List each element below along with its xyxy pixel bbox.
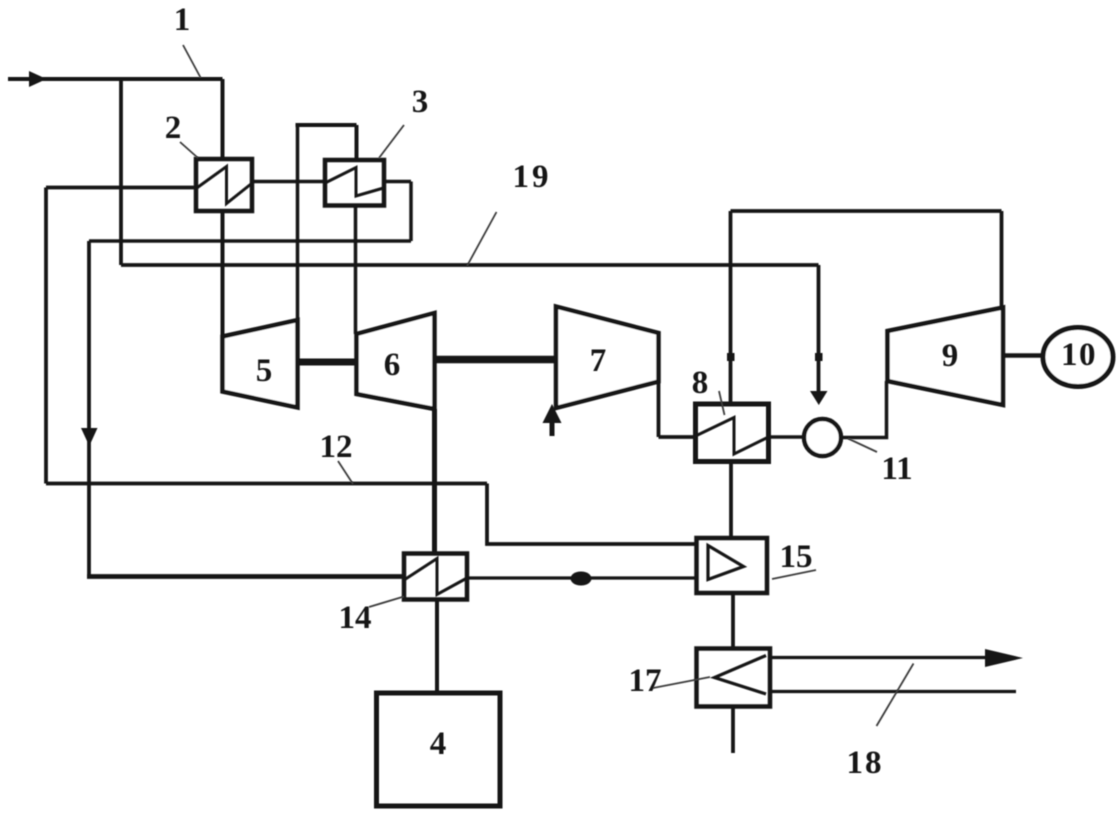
zigzag of heat exchanger 8 bbox=[696, 418, 769, 455]
svg-text:9: 9 bbox=[942, 338, 959, 374]
wire: left downcomer to exchanger 14 bbox=[87, 241, 91, 577]
mixer 11 bbox=[804, 419, 841, 456]
leader 15 bbox=[772, 570, 816, 579]
wire: vertical from inlet to line 19 bbox=[119, 79, 123, 265]
leader 2 bbox=[180, 142, 198, 158]
shaft turbine 6 to compressor 7 bbox=[435, 356, 557, 364]
svg-text:12: 12 bbox=[320, 429, 353, 465]
flow tick on riser bbox=[727, 353, 735, 361]
wire: exchanger 2 to exchanger 3 bbox=[252, 180, 325, 184]
svg-text:2: 2 bbox=[165, 110, 182, 146]
svg-text:5: 5 bbox=[256, 353, 273, 389]
wire: burner 15 down to cooler 17 bbox=[731, 593, 735, 649]
wire: turbine 9 exhaust riser to exchanger 8 bbox=[729, 211, 733, 404]
wire: reheat loop top bbox=[296, 123, 357, 127]
svg-text:6: 6 bbox=[384, 347, 401, 383]
flow tick on drop bbox=[815, 353, 823, 361]
leader 1 bbox=[183, 45, 201, 78]
svg-text:4: 4 bbox=[430, 726, 447, 762]
triangle of cooler 17 bbox=[715, 656, 767, 695]
shaft turbine 5 to 6 bbox=[298, 359, 357, 366]
wire: top loop down to turbine 9 bbox=[1000, 211, 1004, 308]
burner 15 bbox=[697, 538, 768, 593]
turbine 6 bbox=[357, 313, 435, 409]
wire: compressor outlet to exchanger 8 bbox=[659, 435, 696, 439]
wire: cooler 17 upper outlet 18 bbox=[770, 656, 990, 659]
svg-text:15: 15 bbox=[780, 539, 813, 575]
wire: exchanger 3 right outlet bbox=[384, 180, 411, 184]
wire: inlet down into heat exchanger 2 bbox=[221, 79, 225, 159]
wire: inlet line 1 bbox=[8, 77, 223, 81]
leader 11 bbox=[848, 439, 877, 453]
svg-text:19: 19 bbox=[513, 159, 552, 195]
generator 10 bbox=[1043, 328, 1113, 387]
triangle of burner 15 bbox=[708, 546, 744, 580]
condenser box 4 bbox=[377, 693, 501, 806]
wire: exchanger 2 down to turbine 5 inlet bbox=[221, 211, 225, 337]
svg-text:7: 7 bbox=[590, 343, 607, 379]
wire: line 19 drop to mixer 11 bbox=[817, 265, 821, 394]
arrowhead outlet 18 bbox=[985, 649, 1023, 667]
wire: exchanger 3 down to turbine 6 inlet bbox=[354, 206, 358, 335]
leader 18 bbox=[877, 664, 914, 727]
svg-text:11: 11 bbox=[881, 451, 912, 487]
arrowhead on downcomer bbox=[81, 428, 98, 446]
wire: cooler 17 lower line 18 bbox=[770, 690, 1016, 693]
wire: thick feed into exchanger 14 bbox=[87, 574, 404, 579]
leader 3 bbox=[379, 125, 404, 158]
arrowhead inlet bbox=[29, 71, 47, 87]
valve oval on fuel line bbox=[571, 572, 592, 586]
wire: line 12 step down bbox=[487, 484, 697, 545]
svg-text:14: 14 bbox=[339, 600, 372, 636]
leader 19 bbox=[467, 212, 497, 266]
wire: exchanger 8 down to burner 15 bbox=[729, 462, 733, 539]
zigzag of heat exchanger 2 bbox=[196, 167, 251, 204]
leader 17 bbox=[653, 677, 710, 688]
air intake stem bbox=[550, 418, 555, 436]
wire: turbine 6 exhaust down to exchanger 14 bbox=[432, 409, 437, 554]
wire: exchanger 8 to mixer 11 bbox=[769, 435, 805, 439]
wire: left vertical to line 12 bbox=[44, 188, 48, 484]
leader 14 bbox=[369, 597, 404, 608]
wire: exchanger 14 fuel line to burner 15 bbox=[467, 576, 697, 579]
turbine 5 bbox=[223, 320, 298, 408]
svg-text:3: 3 bbox=[412, 84, 429, 120]
wire: cooler 17 drain stub bbox=[731, 707, 735, 754]
heat exchanger 8 bbox=[696, 404, 769, 462]
compressor 7 bbox=[556, 307, 659, 409]
zigzag of heat exchanger 14 bbox=[404, 559, 467, 595]
zigzag of heat exchanger 3 bbox=[325, 168, 384, 197]
wire: exchanger 2 left outlet bbox=[46, 186, 196, 190]
arrowhead into mixer 11 bbox=[810, 391, 828, 405]
wire: compressor 7 outlet down bbox=[657, 382, 661, 438]
heat exchanger 3 bbox=[325, 160, 384, 206]
svg-text:18: 18 bbox=[847, 745, 884, 781]
wire: line 12 horizontal bbox=[46, 482, 487, 486]
cooler 17 bbox=[697, 649, 771, 707]
turbine 9 bbox=[888, 308, 1004, 406]
wire: loop down into exchanger 3 bbox=[355, 125, 359, 160]
svg-text:1: 1 bbox=[174, 2, 191, 38]
wire: top loop horizontal bbox=[731, 209, 1002, 213]
leader 8 bbox=[719, 391, 725, 415]
svg-text:17: 17 bbox=[629, 663, 662, 699]
heat exchanger 2 bbox=[196, 159, 252, 211]
wire: return horizontal y241 bbox=[89, 239, 411, 243]
wire: mixer 11 to turbine 9 inlet bbox=[841, 381, 887, 438]
arrowhead air intake bbox=[543, 404, 562, 423]
svg-text:8: 8 bbox=[692, 365, 709, 401]
svg-text:10: 10 bbox=[1061, 337, 1097, 373]
shaft turbine 9 to generator 10 bbox=[1003, 353, 1043, 358]
wire: turbine 5 outlet riser bbox=[296, 125, 300, 322]
wire: outlet drop bbox=[409, 182, 413, 242]
heat exchanger 14 bbox=[404, 554, 467, 600]
wire: exchanger 14 down to condenser 4 bbox=[435, 600, 439, 694]
leader 12 bbox=[338, 461, 353, 484]
wire: line 19 horizontal bbox=[121, 263, 819, 267]
